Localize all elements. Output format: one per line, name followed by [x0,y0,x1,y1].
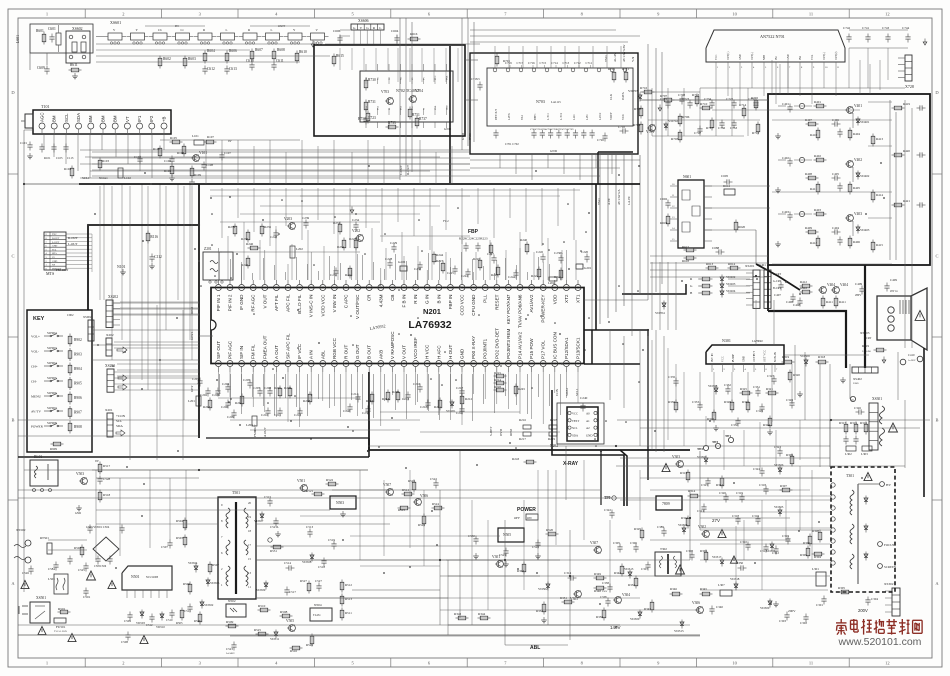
svg-text:NOA1: NOA1 [99,176,108,180]
svg-text:XS606: XS606 [358,19,369,23]
resistor R601 [43,32,45,45]
ground [122,269,124,272]
bold bus to power [600,450,602,505]
diode [451,400,453,409]
capacitor [389,260,391,263]
ground [74,73,76,76]
svg-text:R325: R325 [740,387,747,391]
transistor V101 [193,155,200,162]
svg-text:A1: A1 [586,419,590,423]
ground [777,187,779,190]
resistor [71,166,73,179]
diode [141,610,143,619]
bus wires from tuner down [43,134,45,150]
svg-text:C602: C602 [660,197,667,201]
svg-text:C240: C240 [580,396,588,400]
svg-text:+CON: +CON [116,414,126,418]
resistor [892,107,905,109]
svg-text:FU501: FU501 [56,625,66,629]
svg-text:R309: R309 [786,453,793,457]
filter element [176,33,190,40]
wire band tuner to IC [80,149,470,151]
wire fill bottom strip [359,470,361,560]
resistor [99,158,101,171]
connector [869,403,878,450]
capacitor [427,400,429,403]
svg-text:SCL1: SCL1 [575,388,579,396]
svg-text:N501: N501 [131,575,140,579]
svg-text:TVD: TVD [604,55,608,62]
warning triangle [140,636,148,644]
resistor [341,608,343,621]
svg-text:C316: C316 [752,514,759,518]
IC pin 26 POJINT3 REM [505,361,511,367]
svg-text:C112: C112 [154,255,162,259]
svg-text:R907: R907 [74,411,82,415]
capacitor [129,612,131,615]
svg-text:C703C705C704C706C708C725C724C7: C703C705C704C706C708C725C724C709 [530,128,574,131]
IC pin 36 RF AGC [250,285,256,291]
resistor [872,240,874,253]
fuse FU501 [54,618,66,623]
capacitor [339,35,341,38]
svg-text:R415: R415 [876,243,883,247]
svg-text:C107: C107 [224,151,231,155]
diode [721,275,723,284]
svg-text:9V: 9V [95,459,100,463]
diode [311,553,313,562]
capacitor C612 [204,66,206,69]
transistor V505 [289,625,296,632]
resistor [81,545,83,558]
capacitor [727,386,729,389]
svg-text:VOL-: VOL- [31,350,39,354]
resistor [309,392,311,405]
resistor [289,386,291,399]
svg-text:C902: C902 [67,313,74,317]
capacitor [845,436,847,439]
pin circle 19 [850,396,855,401]
transistor V404 [820,287,827,294]
connector [88,320,94,341]
bold wire to socket [768,311,846,368]
resistor [271,546,284,548]
transistor V501 [301,485,308,492]
svg-text:C220: C220 [581,250,588,254]
IC N503 [330,496,356,509]
resistor [543,602,545,615]
wire bottom power rails [256,509,330,511]
diode [195,564,197,573]
antenna connector [25,114,33,128]
svg-text:V303: V303 [672,455,680,459]
svg-text:RT501: RT501 [40,536,49,540]
capacitor [355,222,357,225]
resistor [343,238,345,251]
svg-text:A IN: A IN [309,350,314,359]
svg-text:ST-2: ST-2 [521,114,524,120]
svg-text:R521: R521 [306,489,313,493]
ground [799,391,801,394]
capacitor [691,552,693,555]
bold CRT feed [767,265,769,311]
svg-text:BM: BM [52,115,57,122]
resistor [687,516,689,529]
capacitor [335,268,337,271]
svg-text:NFB: NFB [763,55,766,60]
svg-text:R902: R902 [74,338,82,342]
svg-text:R523: R523 [408,479,415,483]
svg-text:R536: R536 [194,619,201,623]
svg-text:C323: C323 [774,445,781,449]
bus wires top-right vertical bundle [591,155,593,330]
IC pin 46 CR [366,285,372,291]
capacitor [757,516,759,519]
svg-text:10: 10 [732,12,737,17]
svg-text:TVD: TVD [468,133,472,140]
transistor V401 [847,107,854,114]
warning triangle [676,565,685,574]
svg-text:C327: C327 [767,374,774,378]
svg-text:R-OUT: R-OUT [68,236,78,240]
resistor [782,361,795,363]
capacitor [867,34,869,37]
svg-text:XS602: XS602 [72,27,83,31]
svg-text:VD300: VD300 [630,617,640,621]
resistor R906 [69,392,71,405]
connector [44,232,66,270]
resistor [814,213,827,215]
svg-text:C311: C311 [760,549,767,553]
svg-text:R OUT: R OUT [344,345,349,359]
svg-text:C205: C205 [243,378,250,382]
svg-text:R908: R908 [74,425,82,429]
svg-text:OUT(-): OUT(-) [823,52,826,60]
svg-text:C753: C753 [730,126,737,130]
svg-text:C216: C216 [413,382,420,386]
capacitor [85,563,87,566]
svg-text:R201: R201 [274,386,281,390]
capacitor [765,544,767,547]
capacitor [823,596,825,599]
svg-text:R505: R505 [176,621,183,625]
svg-text:C212: C212 [294,413,301,417]
svg-text:C409: C409 [890,278,897,282]
crystal G201 [576,264,583,269]
svg-text:H VCC: H VCC [425,344,430,359]
svg-text:C332: C332 [724,383,731,387]
warning triangle [21,581,29,589]
svg-text:VD201: VD201 [446,409,456,413]
capacitor [333,541,335,544]
resistor R731 [365,100,367,113]
inductor L101 [194,140,204,145]
svg-text:ON: ON [527,516,532,520]
svg-text:G OUT: G OUT [355,344,360,359]
resistor [755,98,757,111]
connector [107,413,113,437]
warning triangle [38,627,46,635]
capacitor [757,388,759,391]
transistor V704 [410,96,417,103]
svg-text:C734: C734 [704,97,711,101]
resistor [209,398,211,411]
svg-text:C389: C389 [657,525,664,529]
capacitor [620,130,623,132]
svg-text:AV1/AV2: AV1/AV2 [529,294,534,312]
resistor [642,91,655,93]
wire [46,53,48,65]
svg-text:C606: C606 [333,29,341,33]
svg-text:R306: R306 [803,541,810,545]
svg-text:R245: R245 [241,263,248,267]
svg-text:19: 19 [248,515,252,519]
wire N301 to yoke [784,354,869,356]
svg-text:V704: V704 [415,89,423,93]
svg-text:C310: C310 [740,540,747,544]
svg-text:BM: BM [88,115,93,122]
svg-text:R517: R517 [103,464,110,468]
capacitor [765,486,767,489]
IC pin 62 VDD [552,285,558,291]
IC pin 50 R IN [413,285,419,291]
svg-text:C610: C610 [246,59,254,63]
resistor [849,182,851,195]
IC pin 30 IC BUS CON [552,361,558,367]
wire verticals below tuner area [99,186,101,300]
capacitor [367,406,369,409]
resistor [640,122,642,135]
resistor [479,258,481,271]
svg-text:R101: R101 [44,156,51,160]
svg-text:R217: R217 [519,437,526,441]
resistor R612 [724,189,735,195]
svg-text:R347: R347 [644,607,651,611]
svg-text:R608: R608 [277,48,285,52]
svg-text:20: 20 [248,501,252,505]
resistor R730 [365,78,367,91]
capacitor [761,468,763,471]
svg-text:R243: R243 [512,457,519,461]
svg-text:VD401: VD401 [860,120,870,124]
IC pin 44 C APC [343,285,349,291]
wire right verticals to yoke [639,330,641,446]
svg-text:SDA: SDA [116,424,123,428]
capacitor [475,536,477,539]
svg-text:L307: L307 [718,583,725,587]
resistor [845,422,847,435]
svg-text:C604: C604 [391,29,399,33]
ground [342,511,344,514]
capacitor [465,243,467,246]
svg-text:R603: R603 [188,57,196,61]
svg-text:C338: C338 [600,595,607,599]
resistor [209,562,211,575]
svg-text:C611: C611 [276,59,284,63]
connector [892,588,900,616]
ground [277,531,279,534]
svg-text:15: 15 [248,557,252,561]
resistor [226,625,239,627]
bus wires horizontal mid-left [92,151,470,153]
resistor [280,615,293,617]
svg-text:SW907: SW907 [47,406,57,410]
filter element [288,33,302,40]
transistor V403 [847,215,854,222]
svg-text:N601: N601 [683,175,691,179]
capacitor [99,476,101,479]
resistor [494,375,507,377]
switch SW904 [44,365,50,367]
capacitor [515,270,517,273]
wire xray to bottom [547,470,549,625]
capacitor C112 [151,254,153,257]
svg-text:R406: R406 [853,240,860,244]
pin circle [799,211,804,216]
svg-text:VD509: VD509 [256,588,266,592]
svg-text:R103: R103 [102,159,109,163]
svg-text:SW906: SW906 [47,391,57,395]
resistor [339,222,341,235]
svg-text:C208: C208 [264,386,271,390]
svg-text:V401: V401 [854,104,862,108]
svg-text:C401: C401 [782,102,789,106]
connector [351,24,384,30]
svg-text:R707: R707 [660,94,667,98]
resistor [199,612,201,625]
svg-text:SW902: SW902 [47,331,57,335]
svg-text:R236: R236 [241,237,248,241]
ground [543,617,545,620]
svg-text:R526: R526 [306,643,313,647]
svg-text:280V: 280V [855,294,861,297]
resistor [204,141,217,143]
capacitor [89,525,91,528]
svg-text:28V 1n: 28V 1n [890,290,898,293]
svg-text:GND: GND [52,245,57,248]
IC pin 13 G OUT [355,361,361,367]
transistor V703 [387,98,394,105]
svg-text:R412: R412 [800,286,807,290]
svg-text:R402: R402 [814,154,821,158]
capacitor [41,144,43,147]
svg-text:R751: R751 [412,113,420,117]
svg-text:C517: C517 [289,590,296,594]
resistor [892,154,905,156]
svg-text:C503 VD501 C504: C503 VD501 C504 [86,525,110,529]
diode [857,171,859,180]
svg-text:VCC: VCC [621,114,625,120]
svg-text:C520: C520 [532,545,539,549]
svg-text:S-DET: S-DET [489,427,493,436]
resistor [814,159,827,161]
bold bus right of IC [584,330,648,398]
svg-text:GND: GND [739,54,742,60]
wire [849,29,908,31]
resistor [387,390,389,403]
svg-text:C513: C513 [306,525,313,529]
tuner pin BM [112,123,118,129]
capacitor [537,540,539,543]
svg-text:R909: R909 [50,447,57,451]
resistor [807,546,809,559]
capacitor [189,604,191,607]
svg-text:C515: C515 [264,495,271,499]
svg-text:C410: C410 [908,353,915,357]
IC pin 25 PO2 DVD-DET [494,361,500,367]
svg-text:C307: C307 [641,567,648,571]
svg-text:CH+: CH+ [31,365,38,369]
bold bus joint [368,438,370,457]
svg-text:RL01: RL01 [34,455,42,459]
svg-text:www.520101.com: www.520101.com [838,636,922,648]
svg-text:R228: R228 [494,385,501,389]
resistor R603 [184,56,186,69]
svg-text:R531: R531 [270,549,277,553]
capacitor [607,598,609,601]
svg-text:TV/AV PO6/AN6: TV/AV PO6/AN6 [518,294,523,328]
capacitor [737,516,739,519]
capacitor [917,107,920,109]
diode [721,282,723,291]
resistor [308,581,310,594]
transistor V304 [615,597,622,604]
svg-text:RF AGC: RF AGC [251,294,256,312]
svg-text:AGC: AGC [39,112,44,122]
svg-text:27V: 27V [712,518,720,523]
svg-text:OUT(-): OUT(-) [751,52,754,60]
ground [777,241,779,244]
IC pin 23 P00 X-RAY [471,361,477,367]
svg-text:V503: V503 [76,472,84,476]
IC pin 40 B.L.D FIL [297,285,303,291]
wires N703 top pins [494,46,496,68]
IC N504 [310,608,332,621]
capacitor [467,269,469,272]
resistor [523,562,525,575]
svg-text:VD402: VD402 [860,174,870,178]
svg-text:CON: CON [555,388,559,396]
bold bus horizontal y225 [88,224,199,226]
svg-text:11: 11 [809,661,813,666]
capacitor [454,266,456,269]
capacitor [741,494,743,497]
svg-text:R218: R218 [550,418,557,422]
IC N703 block [470,53,638,154]
resistor [355,238,357,251]
svg-text:L201: L201 [188,399,195,403]
svg-text:XS202: XS202 [108,295,118,299]
filter element [311,33,325,40]
wire horizontal top of N601 [465,99,478,101]
transistor V404 [833,287,840,294]
svg-text:R116: R116 [150,235,158,239]
svg-text:R502: R502 [74,546,81,550]
connector [106,338,112,356]
connector [107,369,114,392]
inductor L501 [54,574,68,594]
resistor R604 [204,51,206,64]
svg-text:C113: C113 [67,156,74,160]
svg-text:V404: V404 [840,283,848,287]
svg-text:R716: R716 [640,86,647,90]
svg-text:R601: R601 [36,29,44,33]
resistor [874,349,887,351]
svg-text:VDD: VDD [552,294,557,304]
svg-text:R348: R348 [594,589,601,593]
svg-text:R509: R509 [226,620,234,624]
svg-text:R235: R235 [264,225,271,229]
